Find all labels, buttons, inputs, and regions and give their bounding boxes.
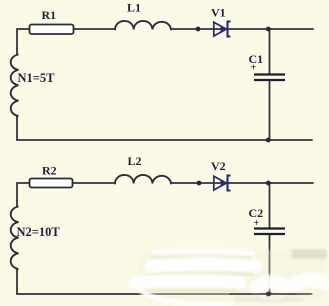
svg-text:N2=10T: N2=10T: [17, 225, 61, 239]
svg-text:L2: L2: [128, 154, 142, 168]
svg-text:V1: V1: [211, 6, 226, 20]
svg-text:N1=5T: N1=5T: [18, 71, 56, 85]
svg-text:+: +: [254, 218, 260, 229]
svg-text:V2: V2: [211, 159, 226, 173]
svg-text:L1: L1: [127, 1, 141, 15]
svg-text:+: +: [251, 63, 257, 74]
svg-text:R2: R2: [42, 164, 57, 178]
svg-text:R1: R1: [42, 8, 57, 22]
